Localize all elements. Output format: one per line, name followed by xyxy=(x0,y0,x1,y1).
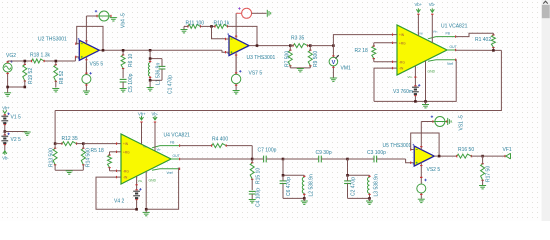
svg-text:+RG: +RG xyxy=(123,150,130,154)
wire R5 to +RG xyxy=(110,151,117,153)
resistor R19 xyxy=(23,61,27,87)
resistor R12 xyxy=(55,142,83,146)
battery V4 xyxy=(133,188,141,209)
resistor R14 xyxy=(81,144,85,171)
svg-text:U2 THS3001: U2 THS3001 xyxy=(38,36,67,42)
svg-text:Vb-: Vb- xyxy=(152,112,159,117)
jumper Vb- U4 xyxy=(153,117,157,120)
svg-text:-IN: -IN xyxy=(399,67,404,71)
ground VS6 xyxy=(266,10,268,17)
resistor R17 xyxy=(481,156,485,185)
svg-text:OUT: OUT xyxy=(450,45,457,49)
battery V3 xyxy=(412,84,420,101)
svg-text:Vref: Vref xyxy=(167,171,173,175)
resistor R16 xyxy=(457,154,472,158)
svg-text:FB: FB xyxy=(170,140,175,144)
wire tank bottom xyxy=(150,79,162,81)
battery V2 xyxy=(1,132,9,151)
jumper Vb+ U1 xyxy=(416,9,420,12)
wire jog to U5 +in xyxy=(406,159,411,163)
jumper Vb+ rail xyxy=(3,110,7,113)
op-amp U4 VCA821 xyxy=(117,134,180,184)
junction U5 out xyxy=(438,155,441,158)
wire R13 R14 join xyxy=(55,169,83,171)
svg-text:Vb+: Vb+ xyxy=(138,112,146,117)
junction tank3 bottom xyxy=(368,197,371,200)
wire tank3 top xyxy=(347,159,349,175)
junction V1 V2 mid xyxy=(4,130,7,133)
resistor R9 xyxy=(308,46,312,68)
op-amp U2 THS3001 xyxy=(76,16,103,75)
capacitor C4 xyxy=(249,191,256,199)
pin GND of U4 xyxy=(145,171,147,209)
ground Vb4 xyxy=(110,17,117,19)
wire U1 -IN drop xyxy=(374,68,393,101)
voltage source Vb4 xyxy=(97,11,111,21)
ground R11 xyxy=(181,29,188,31)
jumper Vb- U1 xyxy=(430,9,434,12)
svg-text:V4 2: V4 2 xyxy=(114,198,125,204)
wire tank split xyxy=(150,58,162,60)
wire FB U4 b xyxy=(226,145,252,147)
supply pin Vb- of U4 xyxy=(154,122,156,152)
svg-text:V1 5: V1 5 xyxy=(11,114,22,120)
capacitor C6 xyxy=(280,175,287,198)
junction R11 R10 xyxy=(210,25,213,28)
wire tank3 bottom xyxy=(348,197,370,199)
scrollbar track xyxy=(542,0,550,221)
resistor R18 xyxy=(32,59,45,63)
svg-text:VS1 -5: VS1 -5 xyxy=(458,115,464,131)
wire R7 R9 join xyxy=(290,67,310,69)
supply pin V3 of U1 xyxy=(414,66,416,86)
svg-text:U5 THS3001: U5 THS3001 xyxy=(383,143,412,149)
svg-text:R16 50: R16 50 xyxy=(458,147,474,153)
ground VG2 xyxy=(4,92,11,94)
resistor R15 xyxy=(250,159,254,190)
svg-text:C3 100p: C3 100p xyxy=(367,150,386,156)
resistor R7 xyxy=(288,46,292,68)
wire U4 OUT bus xyxy=(180,158,253,160)
ground V1V2 xyxy=(24,131,31,133)
wire to C9 xyxy=(283,158,319,160)
scrollbar thumb xyxy=(542,5,550,18)
junction R3 left xyxy=(289,44,292,47)
wire to VM1 node xyxy=(310,45,333,47)
ground VS1 xyxy=(447,118,449,125)
svg-text:Vb-: Vb- xyxy=(429,2,436,7)
scrollbar up arrow xyxy=(543,1,548,3)
resistor R4 xyxy=(212,144,227,148)
junction U3 out xyxy=(256,44,259,47)
wire tank to ground xyxy=(149,80,151,87)
ground L1C1 xyxy=(147,87,154,89)
wire R4 down to out xyxy=(251,146,253,159)
wire stage2 drop xyxy=(54,111,56,144)
svg-text:C5 100p: C5 100p xyxy=(128,73,134,92)
resistor R10 xyxy=(215,24,228,28)
svg-text:C7 100p: C7 100p xyxy=(258,148,277,154)
svg-text:C2 470p: C2 470p xyxy=(351,177,357,196)
svg-text:VS5 5: VS5 5 xyxy=(90,61,104,67)
resistor R3 xyxy=(290,44,310,48)
svg-text:C1 470p: C1 470p xyxy=(167,75,173,94)
junction R3 right xyxy=(309,44,312,47)
svg-text:R3 35: R3 35 xyxy=(291,35,305,41)
ground tank2 xyxy=(301,200,308,202)
junction R12 right xyxy=(82,142,85,145)
junction U2 out xyxy=(102,49,105,52)
resistor R5 xyxy=(108,152,112,171)
junction VG2 bottom xyxy=(6,86,9,89)
wire to U3 -in xyxy=(212,26,226,38)
voltage source VS2 xyxy=(417,177,427,198)
ground R13R14 xyxy=(66,170,73,172)
wire FB U4 a xyxy=(180,145,212,147)
junction GND U1 xyxy=(424,100,427,103)
svg-text:R9 500: R9 500 xyxy=(313,51,319,67)
svg-text:U3 THS3001: U3 THS3001 xyxy=(247,55,276,61)
capacitor C3 xyxy=(348,156,406,163)
wire input bus b xyxy=(44,60,76,62)
junction tank2 split xyxy=(282,174,285,177)
svg-text:VS2 5: VS2 5 xyxy=(427,167,441,173)
supply pin Vb+ of U4 xyxy=(141,122,143,145)
junction tank bottom xyxy=(149,79,152,82)
svg-text:OUT: OUT xyxy=(173,154,180,158)
junction R1 out xyxy=(492,49,495,52)
svg-text:Vb+: Vb+ xyxy=(2,106,10,111)
svg-text:R6 10: R6 10 xyxy=(128,53,134,67)
capacitor C7 xyxy=(252,156,283,163)
svg-text:+RG: +RG xyxy=(399,41,406,45)
svg-text:V: V xyxy=(332,60,336,66)
svg-text:GND: GND xyxy=(149,179,157,183)
ground R7R9 xyxy=(297,68,304,70)
ground VM1 xyxy=(330,77,337,79)
junction LC tank tap xyxy=(149,49,152,52)
wire tank2 top xyxy=(282,159,284,175)
wire tank3 split xyxy=(348,174,370,176)
svg-text:R1 402: R1 402 xyxy=(475,37,491,43)
svg-text:+IN: +IN xyxy=(399,33,405,37)
wire to VF1 xyxy=(471,155,505,157)
resistor R11 xyxy=(184,24,201,28)
resistor R1 xyxy=(491,33,495,50)
junction R6 tap xyxy=(122,49,125,52)
svg-text:C6 470p: C6 470p xyxy=(286,177,292,196)
ground tank3 xyxy=(366,200,373,202)
svg-text:R10 1k: R10 1k xyxy=(214,20,230,26)
svg-text:VS7 5: VS7 5 xyxy=(249,70,263,76)
wire tank top xyxy=(149,50,151,58)
wire VG2 to ground rail xyxy=(8,86,25,88)
svg-text:Vb: Vb xyxy=(419,32,423,36)
output pin VF1 xyxy=(504,155,506,157)
junction tank2 bottom xyxy=(303,197,306,200)
svg-text:R4 400: R4 400 xyxy=(212,136,228,142)
op-amp U5 THS3001 xyxy=(411,122,438,185)
svg-text:R15 10: R15 10 xyxy=(256,168,262,184)
jumper Vb+ U4 xyxy=(140,117,144,120)
svg-text:C9 30p: C9 30p xyxy=(316,150,332,156)
wire mid to ground xyxy=(5,131,27,133)
svg-text:VM1: VM1 xyxy=(341,65,352,71)
svg-text:Vb4 -5: Vb4 -5 xyxy=(121,13,127,28)
wire FB to R1 xyxy=(456,33,494,36)
voltage source VG2 xyxy=(3,60,13,87)
op-amp U1 VCA821 xyxy=(393,25,456,75)
inductor L1 xyxy=(148,59,151,81)
wire U1 out long feed to stage 2 xyxy=(55,50,501,110)
junction tank3 split xyxy=(346,174,349,177)
resistor R2 xyxy=(372,43,376,62)
junction R8 top xyxy=(55,60,58,63)
svg-text:R12 35: R12 35 xyxy=(62,136,78,142)
wire U5 feedback loop xyxy=(411,133,439,156)
junction R16 R17 xyxy=(481,155,484,158)
voltage source VS6 (red) xyxy=(236,7,266,18)
resistor R8 xyxy=(54,61,58,88)
junction V4 bottom xyxy=(135,208,138,211)
svg-text:-IN: -IN xyxy=(123,176,128,180)
svg-text:R2 18: R2 18 xyxy=(355,48,369,54)
wire U5 out xyxy=(438,155,457,157)
svg-text:R5 18: R5 18 xyxy=(91,148,105,154)
wire R2 to -RG xyxy=(374,61,393,63)
voltage source VS1 xyxy=(431,116,447,127)
capacitor C2 xyxy=(344,175,351,198)
svg-text:VG2: VG2 xyxy=(6,53,16,59)
junction tank split xyxy=(149,57,152,60)
svg-text:Vb-: Vb- xyxy=(433,29,438,33)
op-amp U3 THS3001 xyxy=(226,13,253,74)
svg-text:U4 VCA821: U4 VCA821 xyxy=(164,132,191,138)
junction tank2 tap xyxy=(282,158,285,161)
ground U1 xyxy=(422,104,429,106)
ground C4 xyxy=(249,199,256,201)
jumper Vb- rail xyxy=(3,151,7,154)
svg-text:VG: VG xyxy=(408,75,413,79)
ground R17 xyxy=(479,185,486,187)
svg-text:Vref: Vref xyxy=(447,62,453,66)
wire U2 feedback loop xyxy=(76,26,103,50)
svg-text:R13 500: R13 500 xyxy=(48,148,54,167)
svg-text:FB: FB xyxy=(446,31,451,35)
svg-text:VG: VG xyxy=(138,179,143,183)
svg-text:Vb+: Vb+ xyxy=(415,2,423,7)
resistor R6 xyxy=(121,50,125,78)
svg-text:R7 500: R7 500 xyxy=(284,51,290,67)
svg-text:Vb-: Vb- xyxy=(2,156,9,161)
svg-text:L3 538.9n: L3 538.9n xyxy=(374,174,380,196)
svg-text:GND: GND xyxy=(428,69,436,73)
junction GND U4 xyxy=(145,208,148,211)
wire Vref return rail xyxy=(374,60,456,102)
wire to U1 +IN xyxy=(333,35,392,46)
svg-text:Vb: Vb xyxy=(143,145,147,149)
pin GND of U1 xyxy=(425,61,427,102)
wire U2 output bus xyxy=(103,49,222,51)
junction R4 out xyxy=(251,158,254,161)
resistor R13 xyxy=(53,144,57,171)
voltmeter VM1 xyxy=(329,46,339,78)
wire input bus xyxy=(8,60,32,62)
wire R5 to -RG xyxy=(110,170,117,172)
svg-text:R18 1.3k: R18 1.3k xyxy=(30,52,51,58)
ground VS7 xyxy=(233,90,240,92)
junction V3 bottom xyxy=(414,100,417,103)
wire jog to U2 +in xyxy=(74,57,76,61)
wire R2 to +RG xyxy=(374,42,393,44)
svg-text:+IN: +IN xyxy=(123,142,129,146)
svg-text:V3 760m: V3 760m xyxy=(393,89,413,95)
svg-text:Vb-: Vb- xyxy=(157,148,162,152)
svg-text:R8 52: R8 52 xyxy=(59,70,65,84)
ground VS5 xyxy=(83,90,90,92)
svg-text:R17 50: R17 50 xyxy=(486,166,492,182)
supply pin V4 of U4 xyxy=(136,176,138,190)
wire tank2 bottom xyxy=(283,197,304,199)
svg-text:R11 100: R11 100 xyxy=(186,20,205,26)
voltage source VS7 xyxy=(231,56,241,90)
junction VM1 tap xyxy=(332,44,335,47)
capacitor C5 xyxy=(120,79,127,88)
wire R10 to U3 out xyxy=(227,26,257,45)
wire tank2 split xyxy=(283,174,304,176)
junction R19 bottom xyxy=(24,86,27,89)
wire to U4 +IN xyxy=(83,143,116,145)
svg-text:-RG: -RG xyxy=(123,169,129,173)
battery V1 xyxy=(1,113,9,132)
svg-text:L2 538.9n: L2 538.9n xyxy=(308,174,314,196)
wire R11-R10 xyxy=(200,25,215,27)
ground U4 xyxy=(143,211,150,213)
ground R8 xyxy=(52,88,59,90)
wire Vref U4 return xyxy=(146,168,179,209)
supply pin Vb+ of U1 xyxy=(417,14,419,36)
inductor L2 xyxy=(302,175,305,198)
wire U1 OUT xyxy=(456,49,502,51)
junction R12 left xyxy=(54,142,57,145)
ground C5 xyxy=(120,88,127,90)
svg-text:VF1: VF1 xyxy=(503,147,512,153)
inductor L3 xyxy=(368,175,371,198)
wire U2 V+ to Vb4 xyxy=(86,15,97,17)
wire U3 out bus xyxy=(253,45,291,47)
voltage source VS5 xyxy=(82,63,92,91)
svg-text:C4 100p: C4 100p xyxy=(256,188,262,207)
svg-text:V2 5: V2 5 xyxy=(11,137,22,143)
wire VS1 to U5 V+ xyxy=(421,121,433,123)
junction node R19 top xyxy=(24,60,27,63)
svg-text:R19 52: R19 52 xyxy=(28,68,34,84)
supply pin Vb- of U1 xyxy=(431,14,433,43)
capacitor C1 xyxy=(159,59,166,81)
capacitor C9 xyxy=(319,156,348,163)
wire U4 -IN drop xyxy=(96,177,137,209)
svg-text:U1 VCA821: U1 VCA821 xyxy=(441,24,468,30)
junction tank3 tap xyxy=(346,158,349,161)
wire U3 +in jog b xyxy=(222,50,226,52)
ground VS2 xyxy=(418,198,425,200)
svg-text:-RG: -RG xyxy=(399,60,405,64)
